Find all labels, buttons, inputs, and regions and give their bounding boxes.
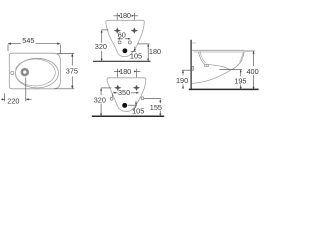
dim 105 (top view)	[131, 47, 136, 52]
dim 320 left (top view)	[102, 30, 109, 61]
wall line	[190, 40, 192, 90]
dim 400	[245, 51, 255, 89]
side hole right	[141, 97, 144, 100]
svg-text:195: 195	[234, 76, 246, 85]
wall top tick	[192, 42, 196, 44]
dim 350	[112, 93, 138, 97]
svg-text:180: 180	[119, 67, 131, 76]
rim back tick	[199, 51, 201, 53]
dim 220 line	[1, 78, 31, 102]
dim 180 (front)	[114, 69, 140, 78]
floor line top view	[93, 60, 151, 62]
svg-text:320: 320	[95, 42, 107, 51]
outline front view	[107, 78, 146, 112]
dim 105 (front)	[128, 101, 137, 105]
svg-text:545: 545	[22, 36, 34, 45]
wall drain box	[192, 67, 194, 71]
mounting star right (front)	[133, 85, 140, 91]
drain dot front	[122, 103, 127, 108]
bidet outline plan	[9, 53, 60, 89]
hole circle left	[118, 41, 121, 44]
drain ring	[22, 69, 27, 74]
trap box	[205, 64, 209, 66]
side hole left	[110, 97, 113, 100]
floor line side view	[189, 88, 259, 90]
drain outer	[21, 68, 29, 76]
svg-text:400: 400	[247, 67, 259, 76]
rim top line	[192, 49, 244, 51]
svg-text:320: 320	[94, 95, 106, 104]
lower sweep curve	[192, 70, 231, 83]
svg-text:105: 105	[132, 107, 144, 116]
dim 190	[182, 70, 191, 89]
dim 155	[144, 99, 161, 116]
front face inner curve	[240, 52, 244, 62]
dim 180 right (height)	[138, 44, 150, 61]
dim 180 top	[114, 13, 138, 20]
rim inner line	[194, 51, 244, 53]
front face curve	[230, 51, 244, 71]
mounting star right	[131, 28, 138, 34]
bowl rim oval	[16, 58, 59, 88]
hole circle right	[128, 41, 131, 44]
svg-text:220: 220	[7, 96, 19, 105]
svg-text:60: 60	[118, 30, 126, 39]
back pedestal curve inner	[200, 52, 206, 63]
dim 195	[220, 70, 243, 89]
svg-text:155: 155	[150, 103, 162, 112]
svg-text:180: 180	[119, 11, 131, 20]
svg-text:350: 350	[118, 88, 130, 97]
mounting star left (front)	[114, 85, 121, 91]
svg-text:105: 105	[130, 51, 142, 60]
back pedestal curve outer	[198, 52, 204, 64]
svg-text:375: 375	[66, 67, 78, 76]
floor line front view	[92, 115, 164, 117]
dim 320 (front)	[101, 88, 111, 116]
outline back view	[106, 20, 144, 56]
dim 545 line	[8, 44, 60, 54]
dim 375 line	[54, 54, 74, 89]
drain dot	[123, 48, 128, 53]
underside line	[204, 64, 230, 70]
svg-text:190: 190	[176, 76, 188, 85]
svg-text:180: 180	[149, 47, 161, 56]
mounting star left	[114, 28, 121, 34]
tap hole	[11, 71, 14, 74]
bowl inner edge arc	[15, 59, 55, 86]
